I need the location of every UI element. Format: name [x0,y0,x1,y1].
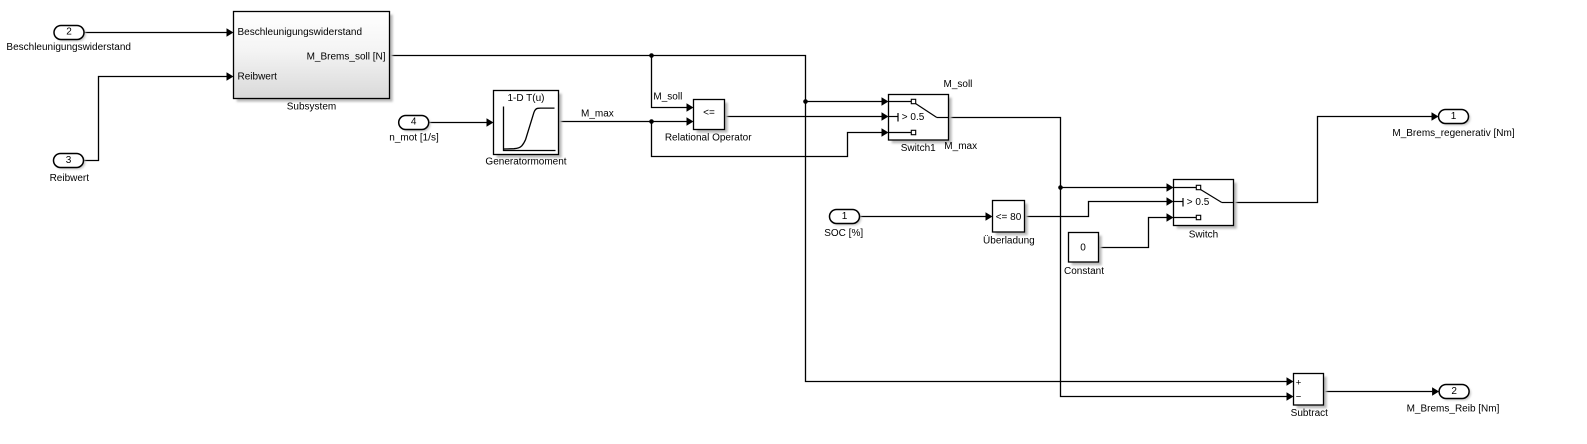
svg-text:Constant: Constant [1064,266,1104,277]
svg-text:Überladung: Überladung [983,235,1035,247]
svg-text:Switch: Switch [1189,230,1218,241]
svg-text:0: 0 [1080,242,1086,253]
svg-text:−: − [1296,392,1302,403]
svg-text:M_Brems_soll [N]: M_Brems_soll [N] [307,52,386,63]
svg-text:Reibwert: Reibwert [50,173,90,184]
svg-text:1: 1 [842,211,848,222]
svg-text:4: 4 [411,117,417,128]
svg-text:1-D T(u): 1-D T(u) [507,93,544,104]
svg-text:M_max: M_max [581,109,614,120]
svg-text:SOC [%]: SOC [%] [824,228,863,239]
svg-text:+: + [1296,377,1302,388]
svg-text:Beschleunigungswiderstand: Beschleunigungswiderstand [6,42,131,53]
svg-text:2: 2 [1451,386,1457,397]
svg-text:3: 3 [66,155,72,166]
svg-text:2: 2 [66,27,72,38]
svg-text:M_Brems_regenerativ [Nm]: M_Brems_regenerativ [Nm] [1392,128,1514,139]
svg-text:Subtract: Subtract [1291,408,1328,419]
svg-text:<= 80: <= 80 [996,212,1022,223]
svg-text:M_max: M_max [944,141,977,152]
svg-text:M_Brems_Reib [Nm]: M_Brems_Reib [Nm] [1407,404,1500,415]
svg-text:Relational Operator: Relational Operator [665,132,752,143]
svg-text:M_soll: M_soll [944,79,973,90]
svg-text:> 0.5: > 0.5 [1187,197,1210,208]
svg-text:n_mot [1/s]: n_mot [1/s] [389,133,439,144]
svg-text:Reibwert: Reibwert [238,72,278,83]
svg-text:> 0.5: > 0.5 [902,112,925,123]
svg-text:<=: <= [703,108,715,119]
svg-text:1: 1 [1451,111,1457,122]
svg-text:Generatormoment: Generatormoment [485,156,566,167]
svg-text:Subsystem: Subsystem [287,102,336,113]
svg-text:Switch1: Switch1 [901,143,936,154]
svg-text:Beschleunigungswiderstand: Beschleunigungswiderstand [238,27,363,38]
svg-text:M_soll: M_soll [653,91,682,102]
